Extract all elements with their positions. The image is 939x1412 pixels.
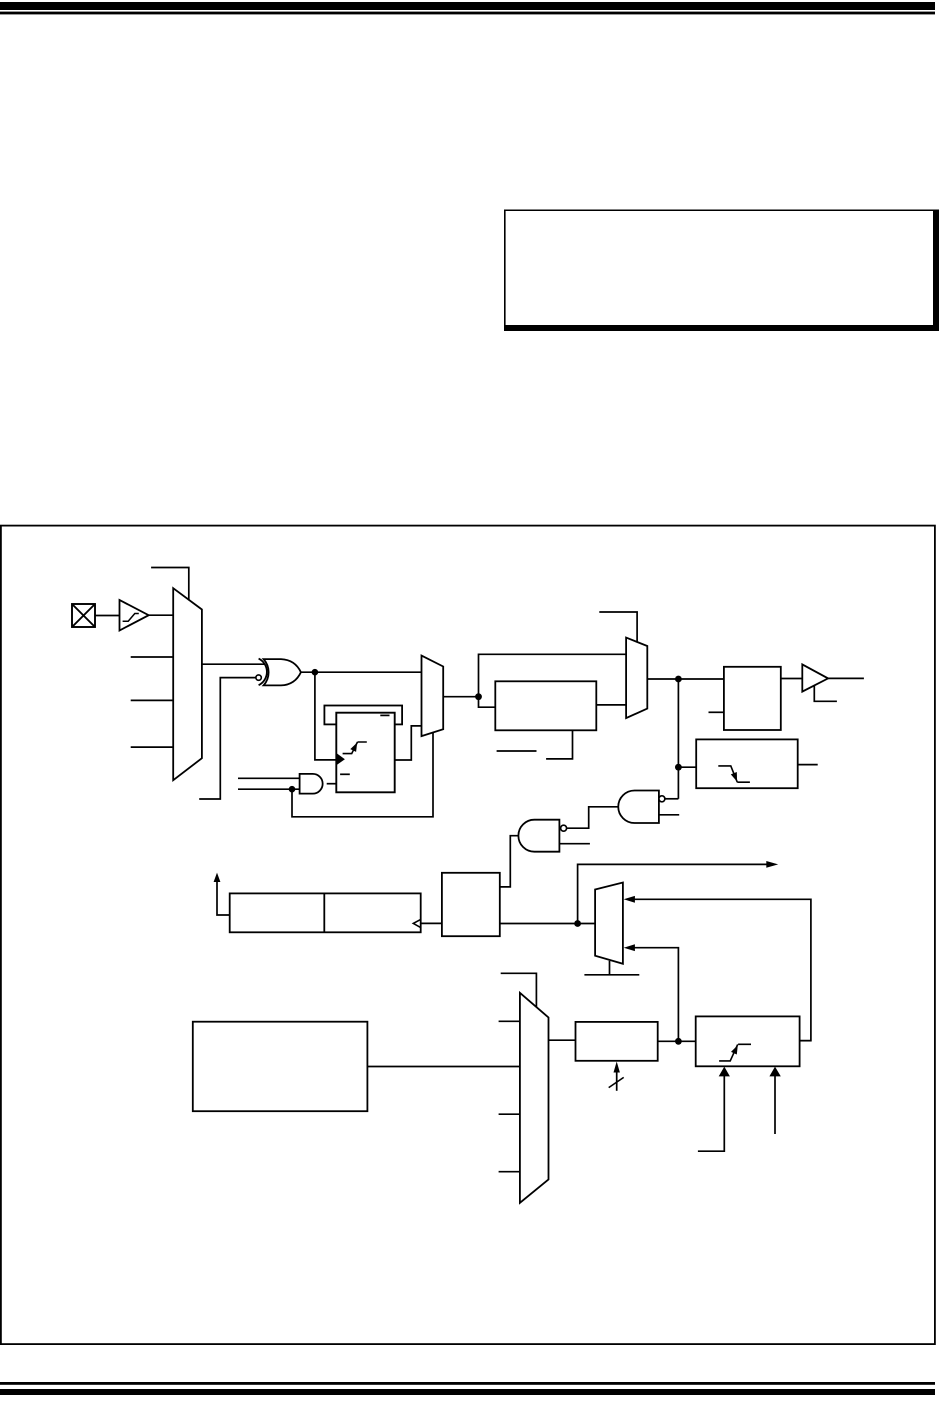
edge box bottom arrow right [774, 1076, 776, 1134]
wire nand upper apex to nand lower [567, 807, 619, 828]
wire 2:1 mux output [443, 696, 478, 698]
falling edge detect box [696, 739, 798, 788]
divider bus arrow [616, 1072, 618, 1091]
source mux stub 3 [499, 1171, 520, 1173]
wire junction to 2:1 mux select [292, 733, 433, 817]
sync mux [595, 883, 623, 964]
xor gate [259, 659, 301, 686]
note box with drop shadow [504, 210, 939, 332]
wire and output to dff [327, 783, 337, 785]
wire into falling edge box [678, 766, 696, 768]
wire enable box to register [421, 922, 442, 924]
wire xor output to 2:1 mux [301, 671, 422, 673]
prescaler box [495, 681, 596, 730]
header thin rule [0, 12, 935, 15]
source mux tall [520, 993, 549, 1203]
node sync mux output junction [574, 920, 581, 927]
clock mux select elbow [151, 568, 189, 601]
clock mux input stub 3 [131, 746, 174, 748]
wire buffer to clock mux [149, 614, 174, 616]
edge box rising glyph [719, 1044, 751, 1061]
and gate [300, 774, 323, 794]
edge box bottom arrow left [698, 1076, 724, 1151]
clock mux input stub 1 [131, 656, 174, 658]
xor input bubble [256, 675, 261, 680]
falling edge glyph [718, 766, 750, 782]
hysteresis glyph [123, 614, 139, 622]
nand gate lower [518, 820, 559, 852]
timer register box [230, 893, 421, 932]
node xor output junction [312, 669, 319, 676]
edge detect box [696, 1016, 800, 1066]
header thick rule [0, 2, 935, 10]
node sync tap junction [675, 676, 682, 683]
wire sync tap vertical [677, 679, 679, 799]
clock mux input stub 2 [131, 699, 174, 701]
wire nand lower apex to enable box [500, 836, 519, 887]
sync mux input arrow upper [624, 896, 635, 903]
wire mux output to xor [202, 663, 265, 665]
source mux stub 2 [499, 1113, 520, 1115]
node comparator tap junction [675, 764, 682, 771]
oscillator pin (crossed box) [72, 604, 95, 627]
sync mux select stem [609, 961, 611, 975]
wire buffer output [828, 677, 864, 679]
nand upper input stub [659, 814, 679, 816]
prescaler label elbow [546, 730, 572, 759]
output buffer [802, 664, 828, 691]
wire dff q to 2:1 mux [395, 726, 422, 760]
register overflow arrow [217, 881, 230, 915]
nand lower bubble [561, 825, 567, 831]
divider bus slash [609, 1077, 624, 1087]
enable box [442, 873, 500, 936]
clock source mux [173, 588, 202, 780]
dff box [336, 713, 394, 793]
wire junction down to dff clock [315, 672, 336, 760]
node prescaler input junction [475, 693, 482, 700]
nand upper bubble [659, 796, 665, 802]
wire oscillator to source mux [367, 1066, 520, 1068]
wire junction to right arrow [578, 864, 767, 923]
wire edge box to sync input [800, 1040, 811, 1042]
wire divider to edge box [658, 1040, 696, 1042]
dff rising edge glyph [343, 742, 367, 754]
divider box [576, 1022, 658, 1061]
sync box [724, 667, 781, 730]
wire and input upper [238, 777, 300, 779]
register clock chevron [413, 919, 420, 927]
figure frame [1, 526, 935, 1345]
dff clock edge triangle [336, 753, 345, 765]
wire bypass mux output [647, 678, 724, 680]
prescale bypass mux [626, 638, 647, 719]
schmitt trigger buffer [120, 600, 149, 631]
falling edge box output stub [798, 764, 818, 766]
sync box side stub [709, 711, 724, 713]
wire sync input lower [634, 948, 678, 1042]
wire prescaler output [596, 704, 626, 706]
node edge box input junction [675, 1038, 682, 1045]
footer thick rule [0, 1389, 935, 1395]
prescaler label overbar [497, 750, 537, 752]
oscillator block box [193, 1022, 368, 1111]
source mux select elbow [501, 973, 537, 1007]
wire junction into prescaler [479, 697, 496, 708]
2:1 mux [422, 656, 444, 737]
dff label overbar [380, 714, 389, 716]
node and lower input junction [289, 786, 296, 793]
wire xor lower input label [199, 678, 256, 799]
bypass mux select elbow [599, 612, 637, 643]
dff reset overbar [340, 773, 350, 775]
wire sync to buffer [781, 678, 803, 680]
wire pin to schmitt buffer [95, 615, 120, 617]
buffer enable elbow [814, 686, 837, 702]
wire and input lower [238, 788, 300, 790]
sync mux input arrow lower [624, 944, 635, 951]
wire source mux to divider box [549, 1039, 576, 1041]
wire junction up to bypass [479, 654, 627, 696]
nand gate upper [618, 791, 659, 824]
wire nand upper bubble to vertical [665, 798, 679, 800]
register divider [323, 893, 325, 932]
sync mux select overbar [584, 974, 639, 976]
wire enable box output [500, 923, 595, 925]
footer thin rule [0, 1382, 935, 1385]
nand lower input stub [559, 843, 590, 845]
rear block behind dff [324, 706, 402, 725]
source mux stub 1 [499, 1020, 520, 1022]
wire sync input upper [634, 899, 811, 1040]
